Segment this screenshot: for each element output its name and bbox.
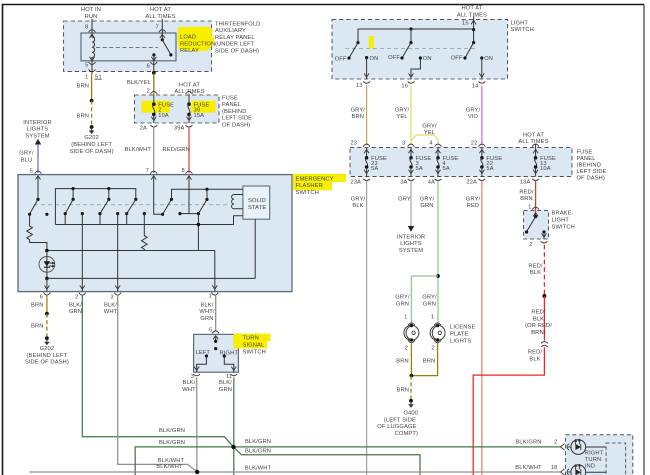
- highlight FUSE 2: [142, 101, 171, 113]
- svg-text:GRN: GRN: [219, 387, 232, 393]
- svg-text:7: 7: [146, 168, 149, 174]
- svg-text:3: 3: [402, 140, 405, 146]
- svg-text:2: 2: [405, 346, 408, 352]
- svg-text:RELAY PANEL: RELAY PANEL: [215, 35, 255, 41]
- fuse panel 1 box: [134, 95, 219, 123]
- wire BLK/WHT bottom horizontal: [29, 471, 561, 473]
- svg-text:STATE: STATE: [248, 205, 266, 211]
- svg-text:OFF: OFF: [388, 55, 400, 61]
- svg-text:LEFT SIDE: LEFT SIDE: [222, 116, 252, 122]
- tss bottom connectors: [193, 374, 200, 376]
- brake light switch: [532, 207, 539, 209]
- svg-text:AUXILIARY: AUXILIARY: [215, 28, 246, 34]
- svg-text:5A: 5A: [416, 166, 423, 172]
- svg-text:2: 2: [554, 439, 557, 445]
- switch 6 arm: [198, 199, 207, 213]
- svg-text:5A: 5A: [371, 166, 378, 172]
- svg-text:INTERIOR: INTERIOR: [397, 235, 425, 241]
- svg-text:(BEHIND LEFT: (BEHIND LEFT: [71, 142, 112, 148]
- svg-text:FLASHER: FLASHER: [296, 183, 323, 189]
- svg-text:GRN: GRN: [396, 302, 409, 308]
- relay internal dashed link: [96, 47, 158, 49]
- wire GRY/BRN pin13 to fuse 23: [366, 86, 368, 146]
- svg-text:VIO: VIO: [468, 114, 479, 120]
- emergency flasher switch box: [18, 175, 292, 292]
- fuse panel 2 box: [350, 148, 572, 177]
- svg-text:23A: 23A: [350, 179, 361, 185]
- svg-text:BLK/WHT: BLK/WHT: [156, 464, 183, 470]
- pin 2 feed contact: [81, 212, 84, 215]
- bus top segment A: [55, 189, 135, 225]
- svg-text:LEFT: LEFT: [196, 350, 211, 356]
- svg-text:15: 15: [462, 20, 469, 26]
- wire hot in run to relay pin 8: [91, 19, 93, 33]
- svg-text:10A: 10A: [540, 166, 551, 172]
- wire BLK/GRN branch down to bottom edge: [235, 448, 420, 475]
- wire RED/GRN fuse 39A to flasher pin 8: [188, 127, 190, 174]
- svg-text:YEL: YEL: [396, 114, 407, 120]
- svg-text:SYSTEM: SYSTEM: [399, 248, 423, 254]
- svg-text:EMERGENCY: EMERGENCY: [296, 176, 334, 182]
- svg-text:OFF: OFF: [335, 57, 347, 63]
- svg-text:7: 7: [155, 25, 158, 31]
- svg-text:SWITCH: SWITCH: [243, 350, 266, 356]
- switch 3 (pin 14): [473, 29, 475, 43]
- svg-text:16: 16: [401, 83, 408, 89]
- wire GRY/GRN fuse 4A to license plate lights: [437, 181, 439, 325]
- svg-text:GRN: GRN: [200, 316, 213, 322]
- wire GRY/VIO pin14 to fuse 22: [481, 86, 483, 146]
- svg-text:14: 14: [472, 84, 479, 90]
- fuse 2 10A: [153, 95, 155, 104]
- switch 2 (pin 16): [410, 29, 412, 43]
- svg-text:LICENSE: LICENSE: [450, 325, 475, 331]
- svg-text:BLK/WHT: BLK/WHT: [245, 465, 272, 471]
- svg-text:(BEHIND LEFT: (BEHIND LEFT: [27, 353, 68, 359]
- svg-text:GRN: GRN: [420, 203, 433, 209]
- svg-text:LEFT SIDE: LEFT SIDE: [577, 169, 607, 175]
- svg-text:GRY/: GRY/: [395, 295, 410, 301]
- svg-text:HOT AT: HOT AT: [462, 6, 483, 12]
- svg-text:BLK/GRN: BLK/GRN: [515, 439, 541, 445]
- svg-text:SIDE OF DASH): SIDE OF DASH): [25, 360, 69, 366]
- junction node bottom gray: [195, 470, 199, 474]
- relay coil: [92, 33, 95, 61]
- rail 2: [45, 277, 49, 281]
- branch to bulb 1: [411, 276, 438, 324]
- svg-text:RED/: RED/: [531, 310, 546, 316]
- svg-text:GRY/: GRY/: [351, 107, 366, 113]
- wire BLK/GRN flasher pin2 down: [82, 295, 233, 447]
- svg-text:RED/: RED/: [528, 264, 543, 270]
- svg-text:LOAD: LOAD: [180, 35, 196, 41]
- switch 1 (pin 13): [356, 41, 359, 44]
- svg-text:WHT: WHT: [182, 387, 196, 393]
- svg-text:8: 8: [181, 168, 184, 174]
- svg-text:(LEFT SIDE: (LEFT SIDE: [384, 417, 416, 423]
- wire BLK/WHT/GRN flasher pin1 to turn signal switch: [215, 295, 217, 332]
- inline connector on RED/BLK: [541, 342, 548, 347]
- wire GRY/BLU to flasher pin 5: [37, 145, 39, 174]
- svg-text:BRN: BRN: [31, 302, 44, 308]
- brake-light switch box: [524, 211, 549, 239]
- svg-text:RED/GRN: RED/GRN: [163, 147, 190, 153]
- open contact near pin8 feed: [178, 212, 181, 215]
- svg-text:1: 1: [404, 315, 407, 321]
- right contact to pin 11: [223, 354, 226, 357]
- svg-text:3: 3: [110, 295, 113, 301]
- svg-text:GRY/: GRY/: [351, 197, 366, 203]
- resistor R1: [27, 214, 47, 250]
- rail 1: [47, 250, 215, 252]
- switch 1 arm: [30, 199, 38, 214]
- switch 1 open contact dot: [45, 213, 48, 216]
- svg-text:FUSE: FUSE: [577, 149, 593, 155]
- svg-text:OF DASH): OF DASH): [222, 123, 250, 129]
- pin 7 feed elbow: [154, 176, 163, 215]
- fuse 13 10A: [532, 144, 539, 147]
- svg-text:TURN: TURN: [243, 335, 259, 341]
- highlight EMERGENCY FLASHER: [293, 174, 346, 182]
- svg-text:BLK: BLK: [533, 316, 544, 322]
- relay pin 6 exit: [153, 61, 155, 73]
- wire GRY fuse 3A to interior lights: [410, 181, 412, 227]
- pin 8 feed elbow: [189, 176, 198, 214]
- switch 3: [108, 189, 110, 200]
- svg-text:SIDE OF DASH): SIDE OF DASH): [70, 149, 114, 155]
- svg-text:OF LUGGAGE: OF LUGGAGE: [377, 424, 416, 430]
- svg-text:ON: ON: [423, 56, 432, 62]
- svg-text:BRAKE-: BRAKE-: [552, 211, 574, 217]
- wire BLK/WHT flasher pin3 down: [118, 295, 198, 472]
- svg-text:13: 13: [356, 83, 363, 89]
- fuse panel 1 connectors top: [150, 92, 157, 94]
- turn signal switch box: [194, 334, 239, 372]
- fuse 23 5A: [363, 144, 370, 147]
- svg-text:23: 23: [350, 140, 357, 146]
- svg-text:ALL TIMES: ALL TIMES: [145, 14, 175, 20]
- svg-text:BRN): BRN): [531, 330, 546, 336]
- svg-text:(BEHIND: (BEHIND: [577, 162, 601, 168]
- wire GRY/YEL pin16 to fuses 3 and 4: [411, 86, 438, 146]
- LED right turn 2: [568, 471, 571, 473]
- pin 6 drop: [46, 278, 48, 291]
- svg-text:RIGHT: RIGHT: [585, 451, 604, 457]
- bus bottom: [55, 216, 243, 225]
- license plate light bulb 2: [434, 323, 441, 325]
- svg-text:6: 6: [147, 64, 150, 70]
- light switch bus: [358, 29, 474, 43]
- svg-text:1: 1: [85, 74, 88, 80]
- ground G400: [409, 399, 413, 403]
- svg-text:(BEHIND: (BEHIND: [222, 109, 246, 115]
- svg-text:5: 5: [30, 168, 33, 174]
- svg-text:10A: 10A: [158, 113, 169, 119]
- svg-text:1: 1: [209, 294, 212, 300]
- wire GRY/RED fuse 22A down to bottom: [481, 181, 483, 475]
- svg-text:BLK: BLK: [530, 270, 541, 276]
- svg-text:BRN: BRN: [76, 83, 89, 89]
- svg-text:OF DASH): OF DASH): [577, 175, 605, 181]
- switch 4: [134, 198, 137, 201]
- svg-text:RUN: RUN: [85, 14, 98, 20]
- svg-text:8: 8: [85, 24, 88, 30]
- switch 5 arm: [163, 199, 172, 214]
- wire RED/BLK brake switch pin2 down (dashed): [543, 245, 545, 296]
- wire BRN relay pin5 to G202: [91, 74, 93, 101]
- highlight TURN SIGNAL: [234, 334, 271, 341]
- svg-text:IND: IND: [585, 464, 595, 470]
- svg-text:HOT AT: HOT AT: [150, 7, 171, 13]
- relay switch pin7 lead: [161, 33, 163, 40]
- license plate light bulb 1: [408, 323, 415, 325]
- fuse 3 5A: [408, 144, 415, 147]
- wire RED/BLK to bottom left: [473, 347, 544, 475]
- svg-text:BLK: BLK: [529, 357, 540, 363]
- LED right turn 1: [568, 446, 571, 448]
- svg-text:2: 2: [529, 242, 532, 248]
- highlight small bar in light switch: [369, 36, 374, 49]
- light switch bottom connectors: [363, 81, 370, 83]
- svg-text:BLK/WHT: BLK/WHT: [158, 458, 185, 464]
- fuse 22 5A: [479, 144, 486, 147]
- svg-text:(OR RED/: (OR RED/: [525, 323, 552, 329]
- svg-text:GRN: GRN: [69, 309, 82, 315]
- svg-text:5: 5: [209, 328, 212, 334]
- svg-text:PANEL: PANEL: [577, 156, 596, 162]
- svg-text:BLK/: BLK/: [183, 380, 196, 386]
- wire BLK/GRN horizontal left segment to junction: [135, 447, 233, 475]
- svg-text:PLATE: PLATE: [450, 332, 468, 338]
- svg-text:LIGHTS: LIGHTS: [400, 241, 422, 247]
- svg-text:4A: 4A: [428, 179, 435, 185]
- solid state bottom drop to rail2: [254, 219, 256, 278]
- svg-text:SWITCH: SWITCH: [296, 190, 319, 196]
- svg-text:3A: 3A: [400, 179, 407, 185]
- wire GRY/BLK fuse 23A down to bottom: [366, 181, 368, 475]
- wire RED/BLK solid to connector: [543, 296, 545, 341]
- switch 2: [72, 189, 74, 200]
- svg-text:BLU: BLU: [21, 157, 33, 163]
- svg-text:RED/: RED/: [528, 350, 543, 356]
- ground G202 (flasher): [45, 336, 49, 340]
- flasher bottom connectors: [44, 293, 51, 296]
- flasher pin 5 entry: [35, 171, 42, 173]
- svg-text:RIGHT: RIGHT: [220, 350, 239, 356]
- svg-text:22: 22: [471, 140, 478, 146]
- solid state coil: [232, 195, 243, 209]
- svg-text:ALL TIMES: ALL TIMES: [518, 139, 548, 145]
- highlight LOAD REDUCTION RELAY: [178, 27, 215, 52]
- svg-text:GRY/: GRY/: [19, 151, 34, 157]
- svg-text:GRY/: GRY/: [420, 197, 435, 203]
- svg-text:BRN: BRN: [31, 324, 44, 330]
- LED indicator: [46, 251, 48, 279]
- connector pin 7: [159, 30, 166, 33]
- wire to pin 15: [473, 16, 475, 29]
- solid state box: [243, 186, 270, 219]
- bus top segment B: [172, 189, 243, 199]
- svg-text:SWITCH: SWITCH: [511, 27, 534, 33]
- svg-text:WHT/: WHT/: [199, 309, 214, 315]
- svg-text:LIGHT: LIGHT: [552, 218, 570, 224]
- svg-text:1: 1: [528, 204, 531, 210]
- connector pin 2: [561, 444, 565, 450]
- wire BLK/WHT tss pin3 down: [196, 378, 198, 473]
- svg-text:SIGNAL: SIGNAL: [243, 342, 265, 348]
- svg-text:BRN: BRN: [520, 196, 533, 202]
- svg-text:BLK/WHT: BLK/WHT: [125, 147, 152, 153]
- wire BRN bulbs to G400: [411, 342, 437, 376]
- svg-text:HOT AT: HOT AT: [179, 82, 200, 88]
- svg-text:BLK/GRN: BLK/GRN: [159, 440, 185, 446]
- relay panel box (thirteenfold auxiliary relay panel): [64, 21, 212, 72]
- relay pin 5 exit: [90, 57, 95, 61]
- svg-text:HOT AT: HOT AT: [523, 132, 544, 138]
- svg-text:BLK/WHT: BLK/WHT: [515, 465, 542, 471]
- wire RED/BRN fuse 13A to brake light switch: [535, 181, 537, 213]
- junction node bottom green: [231, 445, 235, 449]
- svg-text:SYSTEM: SYSTEM: [25, 134, 49, 140]
- svg-text:GRY/: GRY/: [466, 197, 481, 203]
- fuse 4 5A: [435, 144, 442, 147]
- resistor R2: [142, 214, 148, 251]
- svg-text:BLK/: BLK/: [69, 302, 82, 308]
- svg-text:BLK/GRN: BLK/GRN: [245, 449, 271, 455]
- svg-text:PANEL: PANEL: [222, 102, 241, 108]
- svg-text:GRY: GRY: [398, 197, 411, 203]
- light switch box: [332, 20, 508, 79]
- svg-text:18: 18: [551, 465, 558, 471]
- wire BLK/GRN junction to right turn ind pin 2: [234, 446, 561, 448]
- wire BLK/GRN tss pin11 down: [233, 378, 235, 475]
- svg-text:BLK/: BLK/: [104, 302, 117, 308]
- svg-text:GRY/: GRY/: [466, 107, 481, 113]
- svg-text:G400: G400: [403, 411, 418, 417]
- gang dashed link light switch: [345, 48, 478, 50]
- svg-text:2: 2: [147, 88, 150, 94]
- svg-text:(UNDER LEFT: (UNDER LEFT: [215, 42, 255, 48]
- wire BLK/YEL relay pin6 to fuse 2: [152, 71, 156, 75]
- svg-text:COMPT): COMPT): [395, 431, 418, 437]
- svg-text:1: 1: [431, 315, 434, 321]
- svg-text:FUSE: FUSE: [222, 95, 238, 101]
- fuse panel 1 exits: [153, 114, 155, 123]
- svg-text:OFF: OFF: [451, 56, 463, 62]
- svg-text:INTERIOR: INTERIOR: [23, 120, 51, 126]
- svg-text:13A: 13A: [520, 179, 531, 185]
- svg-text:5A: 5A: [486, 166, 493, 172]
- relay switch arm: [162, 40, 170, 54]
- svg-text:TURN: TURN: [585, 457, 601, 463]
- gang dashed link flasher: [34, 204, 230, 206]
- svg-text:5A: 5A: [443, 166, 450, 172]
- svg-text:BRN: BRN: [76, 113, 89, 119]
- svg-text:G202: G202: [84, 135, 99, 141]
- load reduction relay box: [81, 33, 176, 61]
- svg-text:RELAY: RELAY: [180, 48, 199, 54]
- flasher pin 8 entry: [186, 171, 193, 173]
- svg-text:BLK/YEL: BLK/YEL: [127, 80, 151, 86]
- right turn ind box: [566, 435, 633, 475]
- fuse 39 15A: [188, 95, 190, 104]
- wire hot at all times to relay pin 7: [161, 19, 163, 33]
- switch 1 pole lead: [37, 176, 39, 200]
- svg-text:BLK/: BLK/: [219, 380, 232, 386]
- svg-text:39A: 39A: [174, 126, 185, 132]
- svg-text:THIRTEENFOLD: THIRTEENFOLD: [215, 21, 260, 27]
- flasher pin 7 entry: [150, 171, 157, 173]
- pin 1 drop: [214, 251, 216, 292]
- ground G202 (relay): [90, 125, 94, 129]
- svg-text:BLK/GRN: BLK/GRN: [159, 428, 185, 434]
- svg-text:BRN: BRN: [352, 114, 365, 120]
- wire BLK/WHT fuse 2A to flasher pin 7: [153, 127, 155, 174]
- svg-text:RED: RED: [467, 203, 480, 209]
- svg-text:BLK/: BLK/: [201, 302, 214, 308]
- svg-text:ON: ON: [484, 56, 493, 62]
- svg-text:BRN: BRN: [397, 388, 410, 394]
- svg-text:SIDE OF DASH): SIDE OF DASH): [215, 49, 259, 55]
- svg-text:ALL TIMES: ALL TIMES: [457, 13, 487, 19]
- svg-text:BRN: BRN: [423, 359, 436, 365]
- svg-text:GRN: GRN: [423, 302, 436, 308]
- svg-text:ON: ON: [370, 56, 379, 62]
- right turn ind inner box: [606, 443, 626, 475]
- svg-text:S1: S1: [95, 74, 102, 80]
- svg-text:2A: 2A: [140, 126, 147, 132]
- svg-text:REDUCTION: REDUCTION: [180, 41, 215, 47]
- resistor R2 feed contact: [143, 212, 146, 215]
- svg-text:6: 6: [40, 295, 43, 301]
- svg-text:GRY/: GRY/: [422, 295, 437, 301]
- svg-text:RED/: RED/: [519, 190, 534, 196]
- svg-text:WHT: WHT: [104, 309, 118, 315]
- svg-text:BRN: BRN: [396, 359, 409, 365]
- pin 3 feed contact: [116, 212, 119, 215]
- svg-text:BLK/GRN: BLK/GRN: [245, 439, 271, 445]
- connector pin 18: [561, 469, 565, 475]
- svg-text:LIGHTS: LIGHTS: [450, 338, 472, 344]
- svg-text:GRY/: GRY/: [422, 123, 437, 129]
- connector pin 8: [89, 30, 96, 33]
- svg-text:LIGHT: LIGHT: [511, 20, 529, 26]
- svg-text:2: 2: [75, 295, 78, 301]
- svg-text:G202: G202: [40, 346, 55, 352]
- svg-text:22A: 22A: [466, 179, 477, 185]
- svg-text:LIGHTS: LIGHTS: [27, 127, 49, 133]
- svg-text:SWITCH: SWITCH: [552, 225, 575, 231]
- svg-text:GRY/: GRY/: [395, 107, 410, 113]
- svg-text:SOLID: SOLID: [248, 198, 266, 204]
- left contact to pin 3: [205, 354, 208, 357]
- svg-text:15A: 15A: [194, 113, 205, 119]
- svg-text:HOT IN: HOT IN: [81, 7, 101, 13]
- svg-text:YEL: YEL: [424, 130, 435, 136]
- relay contact to pin 6: [152, 53, 155, 56]
- switch 6 contact drop to rail1: [197, 214, 199, 251]
- svg-text:BLK: BLK: [352, 203, 363, 209]
- svg-text:5: 5: [85, 63, 88, 69]
- highlight FUSE 39: [191, 101, 216, 113]
- wire BRN flasher pin6 to G202: [46, 295, 48, 314]
- svg-text:2: 2: [431, 346, 434, 352]
